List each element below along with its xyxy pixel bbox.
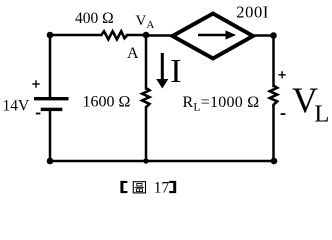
caption bracket left (120, 181, 127, 193)
caption bracket right (169, 181, 176, 193)
svg-text:I: I (170, 53, 181, 90)
node dot bottom-left (47, 158, 54, 165)
wire right vertical lower (272, 107, 275, 162)
svg-text:400 Ω: 400 Ω (75, 10, 114, 27)
svg-text:14V: 14V (3, 97, 31, 114)
minus sign battery (36, 113, 41, 115)
minus sign VL (281, 113, 286, 115)
resistor RL zigzag (270, 86, 277, 107)
wire middle vertical upper (145, 35, 148, 89)
svg-text:200I: 200I (236, 2, 269, 21)
svg-text:A: A (127, 45, 139, 62)
node dot bottom-right (271, 158, 278, 165)
node dot bottom-middle (143, 158, 148, 163)
battery plate short (-) (41, 108, 63, 111)
svg-text:1600 Ω: 1600 Ω (83, 94, 131, 111)
caption glyph tu (CJK) (133, 182, 145, 193)
wire nodeA-to-diamond (146, 34, 173, 37)
wire right vertical upper (272, 36, 275, 87)
plus sign VL (279, 71, 286, 78)
wire left vertical lower (49, 111, 52, 161)
wire bottom horizontal (50, 160, 274, 163)
current arrow I (156, 53, 168, 89)
node dot top-left (47, 32, 54, 39)
svg-text:17: 17 (154, 180, 170, 197)
wire middle vertical lower (145, 107, 148, 161)
wire resistor-to-nodeA (127, 34, 146, 37)
wire left vertical upper (49, 35, 52, 97)
node dot top-right (270, 32, 277, 39)
wire top-left horizontal (50, 34, 101, 37)
node dot A (143, 32, 150, 39)
dependent source arrow (198, 30, 236, 39)
resistor 400ohm zigzag (101, 31, 127, 39)
wire diamond-to-topright (253, 34, 274, 37)
resistor 1600ohm zigzag (142, 88, 149, 107)
battery plate long (+) (34, 97, 69, 100)
plus sign battery (32, 80, 39, 87)
dependent source diamond (173, 14, 254, 59)
